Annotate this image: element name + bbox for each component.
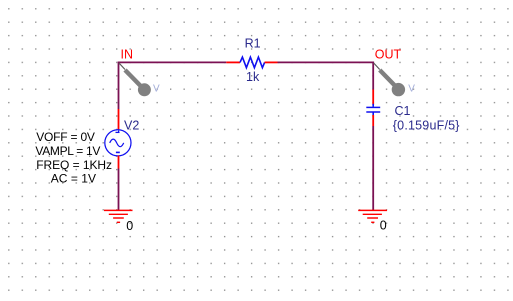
svg-text:0: 0	[126, 219, 133, 233]
wire: left vertical from V2 bottom pin to ground	[118, 169, 120, 211]
svg-text:AC = 1V: AC = 1V	[51, 171, 96, 185]
wire: top horizontal from node IN to R1 left pin	[119, 61, 227, 63]
ground 0 under C1	[358, 210, 387, 222]
svg-text:V2: V2	[124, 118, 139, 132]
svg-text:FREQ = 1KHz: FREQ = 1KHz	[36, 158, 112, 172]
voltage probe marker at IN	[119, 63, 151, 96]
ground 0 under V2	[104, 210, 133, 222]
svg-text:VAMPL = 1V: VAMPL = 1V	[35, 144, 100, 158]
wire: right vertical from C1 bottom pin to ground	[372, 126, 374, 210]
svg-text:0: 0	[380, 219, 387, 233]
svg-text:VOFF = 0V: VOFF = 0V	[36, 130, 95, 144]
voltage source V2	[105, 109, 131, 169]
svg-text:V: V	[153, 83, 160, 94]
voltage probe marker at OUT	[374, 63, 405, 96]
resistor R1	[226, 57, 277, 68]
capacitor C1	[366, 90, 380, 127]
svg-text:OUT: OUT	[375, 48, 402, 62]
svg-text:R1: R1	[245, 36, 261, 50]
svg-text:{0.159uF/5}: {0.159uF/5}	[393, 119, 460, 133]
svg-text:IN: IN	[121, 48, 134, 62]
svg-text:1k: 1k	[246, 70, 260, 84]
svg-text:V: V	[408, 83, 415, 94]
svg-text:C1: C1	[395, 104, 411, 118]
wire: left vertical from node IN down to V2 top pin	[118, 62, 120, 110]
wire: top horizontal from R1 right pin to node OUT	[278, 61, 374, 63]
wire: right vertical from node OUT down to C1 top pin	[372, 62, 374, 90]
